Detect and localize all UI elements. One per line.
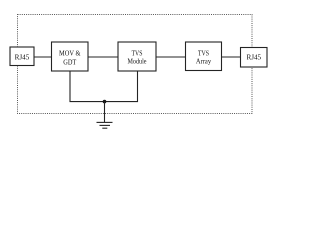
wire: TVS Module to TVS Array (156, 56, 186, 58)
wire: MOV & GDT to TVS Module (88, 56, 118, 58)
svg-text:Array: Array (196, 56, 211, 65)
svg-text:MOV &: MOV & (59, 49, 81, 58)
RJ45 connector (left) (10, 47, 34, 66)
wire: RJ45 left to MOV & GDT (34, 56, 52, 58)
junction dot (103, 100, 107, 104)
svg-text:RJ45: RJ45 (15, 53, 30, 62)
RJ45 connector (right) (241, 48, 268, 68)
MOV & GDT block (52, 42, 89, 71)
wire: TVS Array to RJ45 right (222, 56, 241, 58)
wire: ground bus (MOV & GDT and TVS Module down to common rail) (70, 71, 138, 102)
TVS Array block (186, 42, 222, 71)
earth ground symbol (97, 122, 113, 128)
wire: junction to earth ground (104, 102, 106, 123)
dashed enclosure border (18, 15, 253, 114)
TVS Module block (118, 42, 156, 71)
svg-text:RJ45: RJ45 (246, 53, 261, 62)
svg-text:GDT: GDT (63, 57, 76, 66)
svg-text:Module: Module (128, 57, 148, 66)
